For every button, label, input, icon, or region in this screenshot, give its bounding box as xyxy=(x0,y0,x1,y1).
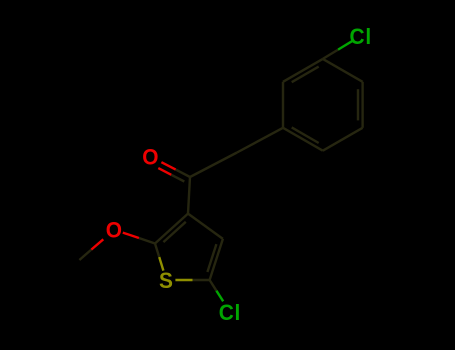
svg-text:Cl: Cl xyxy=(219,300,241,325)
benzene bond UR-LR xyxy=(361,82,363,128)
benzene bond LL-UL xyxy=(282,82,284,128)
bond C3-C(=O) xyxy=(188,177,190,214)
carbonyl C=O double bond line 2 xyxy=(158,168,184,181)
benzene bond LR-bot xyxy=(323,128,363,151)
benzene double bond bot-LL inner line xyxy=(292,127,319,143)
benzene double bond UL-top inner line xyxy=(292,67,319,83)
bond CH2-phenyl xyxy=(237,128,283,153)
thiophene bond C2-C3 xyxy=(155,214,188,244)
thiophene bond S-C5 xyxy=(175,279,209,281)
svg-text:S: S xyxy=(159,269,174,294)
bond C(=O)-CH2 xyxy=(190,153,237,178)
thiophene double bond C4=C5 inner line xyxy=(207,244,216,272)
benzene bond UL-top xyxy=(283,59,323,82)
bond O-CH3 (methoxy methyl) xyxy=(79,239,103,260)
thiophene bond C3-C4 xyxy=(188,214,223,239)
bond phenyl-Cl xyxy=(323,40,354,59)
svg-text:O: O xyxy=(106,218,123,243)
svg-text:Cl: Cl xyxy=(349,24,371,49)
svg-text:O: O xyxy=(142,145,159,170)
benzene double bond UR-LR inner line xyxy=(357,89,359,120)
benzene bond bot-LL xyxy=(283,128,323,151)
bond C5-Cl xyxy=(210,280,224,301)
thiophene bond S-C2 xyxy=(155,244,163,271)
bond C2-O (methoxy) xyxy=(123,233,155,244)
benzene bond top-UR xyxy=(323,59,363,82)
carbonyl C=O double bond line 1 xyxy=(161,162,190,177)
thiophene double bond C2=C3 inner line xyxy=(163,222,185,242)
thiophene bond C4-C5 xyxy=(210,239,223,280)
